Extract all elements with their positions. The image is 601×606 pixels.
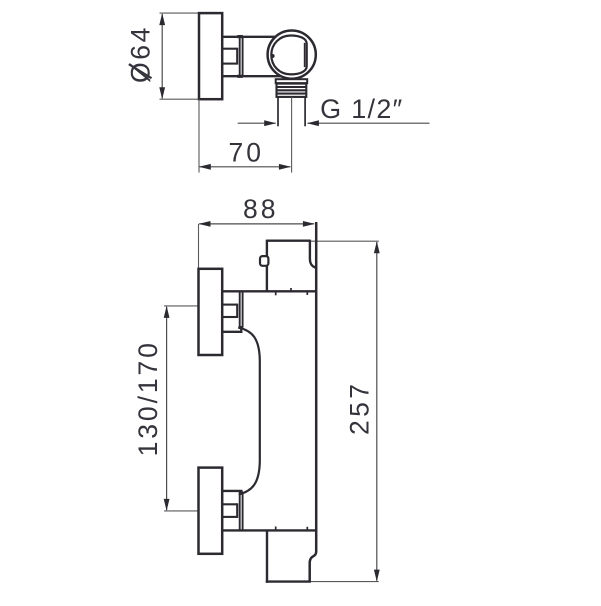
arrow left 70	[199, 164, 211, 170]
arrow up Ø64	[159, 13, 165, 25]
wall plate front bottom	[199, 468, 223, 554]
body right edge with bottom jog	[310, 222, 317, 582]
thread line 3	[277, 93, 306, 95]
svg-text:70: 70	[229, 137, 264, 167]
pipe center line	[291, 97, 293, 173]
stub bottom line	[222, 331, 242, 333]
cap left edge	[266, 530, 268, 582]
tick top line a	[275, 291, 277, 295]
thread line 1	[277, 86, 306, 88]
arrow right 70	[279, 164, 291, 170]
union double line b	[242, 493, 244, 532]
knob left edge	[266, 240, 268, 292]
wire: 257 bottom extension line	[311, 581, 379, 583]
stub recess right edge	[236, 48, 238, 65]
stub recess right edge	[236, 503, 238, 518]
body top line	[222, 36, 278, 38]
stub recess top	[222, 304, 237, 306]
svg-text:130/170: 130/170	[133, 340, 163, 456]
stub recess bottom	[222, 516, 237, 518]
svg-text:Ø64: Ø64	[126, 25, 156, 83]
wire: 257 top extension line	[311, 240, 379, 242]
arrow up 130/170	[164, 306, 170, 318]
top union stub (front view)	[222, 291, 243, 332]
knob outer circle (top view)	[268, 30, 316, 78]
union end cap bottom	[237, 75, 243, 78]
tick bottom line b	[306, 527, 308, 531]
wire: 130/170 bottom extension line	[164, 510, 199, 512]
tick top line c	[290, 288, 292, 291]
dim 257 line	[376, 242, 378, 581]
union double line b	[242, 36, 244, 77]
dim G1/2 line right segment	[308, 122, 430, 124]
stub top line	[222, 490, 242, 492]
stub recess bottom	[222, 316, 237, 318]
svg-text:G 1/2″: G 1/2″	[320, 94, 403, 124]
wall plate (side view)	[199, 13, 222, 99]
body left waist contour	[238, 327, 260, 494]
arrow left 88	[199, 221, 211, 227]
stub recess right edge	[236, 304, 238, 318]
knob right edge with fillet to body	[310, 240, 316, 268]
tick bottom line a	[275, 527, 277, 531]
Ø slash overshoot	[129, 64, 152, 78]
wire: 70 left extension line	[198, 99, 200, 172]
cap bottom line	[266, 580, 311, 582]
arrow right G1/2	[264, 120, 276, 126]
arrow down 257	[374, 570, 380, 582]
stub recess top	[222, 48, 237, 50]
mixer body (front view)	[222, 222, 316, 582]
collar below knob	[276, 79, 308, 83]
arrow up 257	[374, 241, 380, 253]
wire: 88 left extension line	[198, 224, 200, 269]
body top line	[222, 290, 316, 292]
dim G1/2 line left segment	[238, 122, 276, 124]
bottom cap (front view)	[266, 530, 311, 582]
knob side tab	[260, 256, 268, 266]
union connector	[240, 491, 242, 493]
threaded outlet G1/2	[277, 84, 307, 97]
thread line 2	[277, 89, 306, 91]
body bottom line	[222, 75, 284, 77]
arrow left G1/2	[307, 120, 319, 126]
stub recess bottom	[222, 63, 237, 65]
svg-text:257: 257	[344, 381, 374, 435]
pipe right edge	[304, 97, 306, 126]
union end cap top	[237, 35, 243, 38]
valve body horizontal (top view)	[222, 37, 284, 76]
union end blob	[239, 326, 243, 329]
arrow right 88	[303, 221, 315, 227]
tick top line b	[306, 291, 308, 295]
union end blob	[239, 491, 243, 494]
wire: dim Ø64 top extension line	[160, 12, 200, 14]
wall plate front top	[199, 269, 223, 355]
union double line a	[239, 36, 241, 77]
bottom union stub (front view)	[222, 491, 243, 532]
union double line a	[239, 291, 241, 328]
svg-text:88: 88	[243, 194, 278, 224]
wire: dim Ø64 bottom extension line	[160, 98, 200, 100]
pipe left edge	[277, 97, 279, 126]
union double line a	[239, 493, 241, 532]
body bottom line	[222, 529, 316, 531]
knob inner face with flat right side	[271, 36, 306, 75]
knob inner chord double line	[304, 43, 306, 67]
stub/union between plate and body (top view)	[222, 36, 243, 77]
dim 88 line	[199, 223, 314, 225]
knob detent notch	[271, 54, 275, 58]
dim 70 line	[200, 166, 291, 168]
wire: dim Ø64 dimension line	[161, 14, 163, 98]
arrow down Ø64	[159, 87, 165, 99]
knob top line	[267, 239, 310, 241]
union connector	[240, 328, 242, 332]
wire: 130/170 top extension line	[164, 305, 199, 307]
arrow down 130/170	[164, 499, 170, 511]
union double line b	[242, 291, 244, 328]
dim 130/170 line	[166, 307, 168, 510]
top cap / control knob (front view)	[267, 240, 316, 292]
stub recess top	[222, 503, 237, 505]
